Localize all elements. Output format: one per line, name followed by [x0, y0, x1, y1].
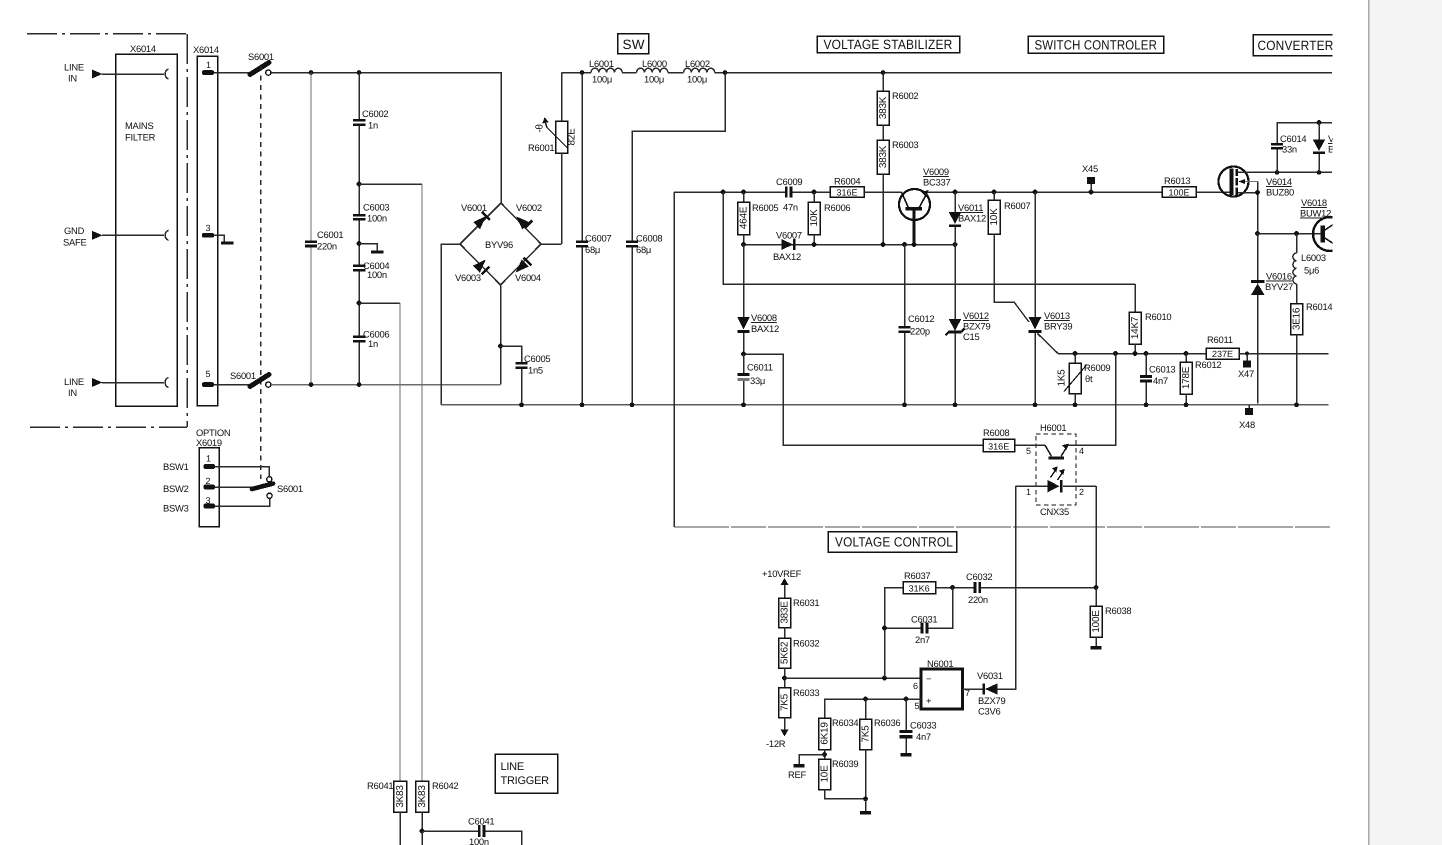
node source: [1255, 190, 1260, 195]
svg-text:R6038: R6038: [1105, 605, 1131, 616]
svg-text:MAINS: MAINS: [125, 120, 153, 131]
SWITCH CONTROLER title box: [1028, 36, 1164, 53]
connector X6014 body: [197, 56, 218, 406]
node V6013 top: [1033, 190, 1038, 195]
wire R6011 right to page edge: [1239, 353, 1329, 355]
node L6003 tap: [1294, 231, 1299, 236]
inductor L6002: [684, 58, 715, 85]
svg-text:R6013: R6013: [1164, 175, 1190, 186]
svg-text:−: −: [926, 673, 932, 684]
node C6012 rail: [902, 402, 907, 407]
svg-text:464E: 464E: [739, 206, 750, 229]
connector X6019 body: [199, 448, 219, 527]
svg-text:BUZ80: BUZ80: [1266, 187, 1294, 198]
svg-text:L6001: L6001: [589, 58, 614, 69]
svg-text:R6042: R6042: [432, 780, 458, 791]
svg-text:82E: 82E: [567, 128, 578, 146]
svg-text:31K6: 31K6: [909, 583, 930, 593]
svg-text:33n: 33n: [1282, 144, 1297, 155]
node R6037/C6031/C6032: [950, 585, 955, 590]
svg-text:6: 6: [913, 681, 918, 691]
svg-text:SW: SW: [623, 37, 645, 52]
svg-text:FILTER: FILTER: [125, 132, 156, 143]
svg-text:C6012: C6012: [908, 313, 934, 324]
svg-text:V6011: V6011: [958, 202, 983, 213]
svg-text:5: 5: [915, 701, 920, 711]
capacitor C6033: [900, 699, 937, 757]
svg-text:100E: 100E: [1168, 187, 1189, 197]
svg-text:14K7: 14K7: [1130, 316, 1141, 339]
svg-text:R6006: R6006: [824, 202, 850, 213]
node V6013 rail: [1033, 402, 1038, 407]
capacitor C6006: [353, 336, 366, 339]
resistor R6012: [1180, 354, 1221, 405]
op-amp N6001: [913, 658, 970, 711]
node V6011 top: [953, 190, 958, 195]
svg-text:BYV96: BYV96: [485, 239, 513, 250]
switch S6001 top lever: [250, 63, 269, 75]
diode V6015 (clipped labels): [1313, 123, 1349, 173]
switch S6001 option upper contact: [267, 477, 272, 482]
input arrow LINE IN bottom: [92, 378, 103, 387]
terminal X47: [1238, 352, 1254, 380]
svg-text:1n5: 1n5: [528, 365, 543, 376]
node: [741, 242, 746, 247]
switch S6001 bottom contact circle: [266, 382, 271, 387]
svg-text:4: 4: [1079, 446, 1084, 456]
svg-text:S6001: S6001: [277, 483, 303, 494]
node X45: [1089, 190, 1094, 195]
svg-text:1: 1: [206, 454, 211, 464]
svg-text:S6001: S6001: [230, 370, 256, 381]
resistor R6031: [779, 597, 820, 628]
resistor R6032: [779, 628, 820, 688]
wire gate: [1196, 191, 1231, 193]
contact (female) GND SAFE: [165, 230, 168, 240]
svg-text:178E: 178E: [1181, 366, 1192, 389]
svg-text:BSW2: BSW2: [163, 483, 189, 494]
svg-text:R6011: R6011: [1207, 334, 1233, 345]
svg-text:1n: 1n: [368, 338, 378, 349]
svg-text:5K62: 5K62: [780, 641, 791, 664]
svg-text:H6001: H6001: [1040, 422, 1066, 433]
resistor R6033: [779, 687, 820, 730]
svg-text:V6016: V6016: [1266, 271, 1292, 282]
svg-text:BAX12: BAX12: [751, 323, 779, 334]
svg-text:VOLTAGE CONTROL: VOLTAGE CONTROL: [835, 535, 953, 550]
svg-text:C6009: C6009: [776, 176, 802, 187]
svg-text:6K19: 6K19: [820, 722, 831, 745]
node C6002 top: [357, 70, 362, 75]
node R6036/R6039 ground: [863, 796, 868, 801]
node: [812, 242, 817, 247]
svg-text:R6009: R6009: [1084, 362, 1110, 373]
resistor R6001 (NTC): [528, 73, 578, 244]
svg-text:1K5: 1K5: [1057, 369, 1068, 387]
wire DC rail: [562, 72, 592, 74]
svg-text:C6007: C6007: [585, 233, 611, 244]
svg-text:1n: 1n: [368, 120, 378, 131]
svg-text:C15: C15: [963, 331, 979, 342]
svg-text:7K5: 7K5: [861, 725, 872, 743]
svg-text:IN: IN: [68, 73, 77, 84]
capacitor C6013: [1140, 354, 1175, 405]
svg-text:220p: 220p: [910, 326, 930, 337]
wire bridge left vertex to ground rail: [441, 244, 460, 405]
svg-text:C6001: C6001: [317, 229, 343, 240]
capacitor C6009: [776, 176, 802, 213]
svg-text:BSW1: BSW1: [163, 461, 189, 472]
svg-text:C6002: C6002: [362, 108, 388, 119]
svg-text:V6031: V6031: [977, 670, 1003, 681]
diode V6003: [455, 260, 489, 284]
svg-text:47n: 47n: [783, 202, 798, 213]
svg-text:C6011: C6011: [747, 362, 773, 373]
node V6015 top: [1317, 120, 1322, 125]
node base wire: [1255, 231, 1260, 236]
svg-text:BUW12: BUW12: [1300, 208, 1331, 219]
diode V6002: [516, 202, 542, 230]
node V6012 rail: [953, 402, 958, 407]
svg-text:GND: GND: [64, 225, 85, 236]
svg-text:100n: 100n: [367, 269, 387, 280]
node R6034/R6039/REF: [822, 752, 827, 757]
svg-text:100E: 100E: [1091, 610, 1102, 633]
optocoupler H6001 dashed box: [1036, 434, 1076, 505]
capacitor C6002: [358, 73, 360, 120]
node R6005 top: [741, 190, 746, 195]
svg-text:4n7: 4n7: [1153, 375, 1168, 386]
svg-text:V6002: V6002: [516, 202, 542, 213]
svg-text:C6041: C6041: [468, 816, 494, 827]
resistor R6010: [1129, 284, 1171, 354]
svg-text:SWITCH CONTROLER: SWITCH CONTROLER: [1035, 38, 1158, 53]
node C6011 rail: [741, 402, 746, 407]
wire bottom switch rail: [271, 384, 501, 386]
svg-text:TRIGGER: TRIGGER: [501, 775, 550, 787]
svg-text:33μ: 33μ: [750, 375, 765, 386]
svg-text:L6003: L6003: [1301, 252, 1326, 263]
wire H6001 pin4 riser: [1068, 354, 1116, 446]
resistor R6034: [819, 717, 859, 759]
svg-text:V6003: V6003: [455, 272, 481, 283]
wire R6042 drop: [421, 184, 423, 781]
input arrow GND SAFE: [92, 231, 103, 240]
svg-text:R6004: R6004: [834, 176, 860, 187]
node R6042 / C6041: [420, 829, 425, 834]
wire LINE IN bottom: [102, 382, 164, 384]
node C6001 bottom: [309, 382, 314, 387]
svg-text:R6032: R6032: [793, 638, 819, 649]
capacitor C6008 with loop from rail: [626, 73, 725, 405]
capacitor C6005: [501, 346, 522, 362]
resistor R6003: [877, 125, 918, 245]
svg-text:100μ: 100μ: [592, 74, 612, 85]
node C6008/rail: [630, 402, 635, 407]
wire AC top rail from switch: [271, 73, 501, 203]
contact (female) LINE IN top: [165, 69, 168, 79]
wire to V6018 base: [1258, 233, 1322, 235]
resistor R6006: [808, 192, 850, 245]
svg-text:5μ6: 5μ6: [1304, 265, 1319, 276]
svg-text:R6010: R6010: [1145, 311, 1171, 322]
svg-text:V6004: V6004: [515, 272, 541, 283]
wire pin2 riser down to R6038: [1095, 486, 1097, 587]
node C6013 top: [1144, 351, 1149, 356]
resistor R6036: [860, 699, 901, 799]
wire R6037 out: [936, 587, 975, 589]
diode V6011: [949, 192, 986, 245]
pin 3 contact bar: [202, 233, 214, 238]
svg-text:V6018: V6018: [1301, 197, 1327, 208]
X6019 pin 3 bar: [204, 504, 216, 509]
svg-text:N6001: N6001: [927, 658, 953, 669]
wire R6041 drop: [399, 303, 401, 781]
node R6032/R6033/pin6: [782, 676, 787, 681]
contact (female) LINE IN bottom: [165, 378, 168, 388]
diode V6007: [773, 230, 802, 263]
svg-text:3K83: 3K83: [417, 785, 428, 808]
pin 3 chassis stub: [214, 235, 224, 242]
wire: [668, 72, 684, 74]
thyristor V6013 BRY39: [1029, 192, 1073, 405]
svg-text:R6001: R6001: [528, 142, 554, 153]
wire pin7: [963, 688, 984, 690]
sense loop wire to control section: [673, 192, 675, 527]
node loop tap: [721, 190, 726, 195]
resistor R6002: [877, 73, 918, 125]
node: [881, 242, 886, 247]
node C6008 loop tap: [723, 70, 728, 75]
svg-text:4n7: 4n7: [916, 731, 931, 742]
svg-text:V6013: V6013: [1044, 310, 1070, 321]
H6001 phototransistor: [1045, 444, 1069, 460]
resistor R6013: [1162, 175, 1196, 197]
svg-text:-12R: -12R: [766, 738, 786, 749]
bridge rectifier BYV96 diamond: [460, 203, 541, 285]
wire base net left segment: [674, 191, 786, 193]
svg-text:R6031: R6031: [793, 597, 819, 608]
svg-text:10K: 10K: [989, 208, 1000, 226]
node R6012 top: [1184, 351, 1189, 356]
svg-text:C6003: C6003: [363, 202, 389, 213]
dash-dot mains boundary bottom edge: [30, 426, 187, 428]
svg-text:1: 1: [1026, 487, 1031, 497]
resistor R6037: [903, 570, 936, 594]
svg-text:V6008: V6008: [751, 312, 777, 323]
LINE TRIGGER box: [495, 754, 558, 793]
svg-text:C3V6: C3V6: [978, 706, 1000, 717]
svg-text:V6001: V6001: [461, 202, 487, 213]
svg-text:R6033: R6033: [793, 687, 819, 698]
svg-text:C6008: C6008: [636, 233, 662, 244]
wire source net: [1257, 182, 1259, 234]
node feedback: [882, 676, 887, 681]
svg-text:R6007: R6007: [1004, 200, 1030, 211]
diode V6004: [515, 258, 541, 283]
wire pin1 to switch: [214, 72, 251, 74]
svg-text:3K83: 3K83: [395, 785, 406, 808]
terminal X45: [1082, 163, 1098, 192]
svg-text:100μ: 100μ: [687, 74, 707, 85]
diode V6001: [461, 202, 490, 229]
svg-text:V6014: V6014: [1266, 176, 1292, 187]
svg-text:10E: 10E: [820, 765, 831, 783]
svg-text:X47: X47: [1238, 368, 1254, 379]
-12R terminal: [766, 730, 789, 750]
switch linkage dashed line: [260, 66, 262, 479]
MOSFET V6014 BUZ80: [1219, 167, 1294, 198]
svg-text:383E: 383E: [780, 601, 791, 624]
svg-text:R6005: R6005: [752, 202, 778, 213]
resistor R6007: [988, 192, 1030, 322]
zener V6031: [977, 670, 1005, 717]
resistor R6011: [1206, 334, 1239, 359]
page edge gray panel: [1369, 0, 1442, 845]
CONVERTER title box (clipped by page edge): [1253, 35, 1339, 56]
svg-text:3: 3: [206, 223, 211, 233]
svg-text:316E: 316E: [836, 188, 857, 198]
terminal X48: [1239, 405, 1255, 430]
node R6007 top: [992, 190, 997, 195]
svg-text:220n: 220n: [317, 241, 337, 252]
svg-text:BZX79: BZX79: [978, 695, 1005, 706]
X6019 pin 2 bar: [204, 485, 216, 490]
svg-text:X6019: X6019: [196, 437, 222, 448]
node C6013 rail: [1144, 402, 1149, 407]
svg-text:R6039: R6039: [832, 758, 858, 769]
switch S6001 top contact circle: [266, 70, 271, 75]
wire pin6: [785, 677, 922, 679]
resistor R6041: [394, 781, 407, 812]
svg-text:10K: 10K: [809, 209, 820, 227]
node C6004/C6006 with branch to R6041: [357, 301, 362, 306]
svg-text:2n7: 2n7: [915, 634, 930, 645]
svg-text:R6002: R6002: [892, 90, 918, 101]
wire BSW1 to switch contact: [215, 467, 269, 478]
node R6010 bottom: [1133, 351, 1138, 356]
node C6007 top: [580, 70, 585, 75]
svg-text:BAX12: BAX12: [958, 213, 986, 224]
capacitor C6032: [966, 571, 1096, 605]
ground return rail: [441, 404, 1329, 406]
wire main DC rail to page edge: [715, 72, 1332, 74]
wire H6001 pin1: [1016, 485, 1048, 487]
wire H6001 pin2: [1063, 485, 1096, 487]
resistor R6039: [819, 758, 866, 799]
svg-text:C6014: C6014: [1280, 133, 1306, 144]
svg-text:V6009: V6009: [923, 166, 949, 177]
svg-text:L6002: L6002: [685, 58, 710, 69]
svg-text:68μ: 68μ: [585, 244, 600, 255]
svg-text:5: 5: [206, 369, 211, 379]
node V6008/C6011/R6008: [741, 352, 746, 357]
thermistor R6009: [1057, 354, 1111, 405]
svg-text:V6012: V6012: [963, 310, 989, 321]
svg-text:R6041: R6041: [367, 780, 393, 791]
wire pin1 riser down to V6031: [998, 486, 1016, 689]
SW box: [618, 34, 649, 54]
switch S6001 option lower contact: [267, 493, 272, 498]
svg-text:X6014: X6014: [193, 44, 219, 55]
transistor V6009 BC337: [899, 166, 950, 245]
svg-text:C6013: C6013: [1149, 364, 1175, 375]
svg-text:LINE: LINE: [64, 376, 84, 387]
svg-text:X48: X48: [1239, 419, 1255, 430]
node R6012 rail: [1184, 402, 1189, 407]
svg-text:5: 5: [1026, 446, 1031, 456]
svg-text:LINE: LINE: [64, 62, 84, 73]
inductor L6000: [637, 58, 668, 85]
node R6014 rail: [1294, 402, 1299, 407]
svg-text:SAFE: SAFE: [63, 237, 87, 248]
wire X47 net: [1058, 353, 1206, 355]
svg-text:BAX12: BAX12: [773, 251, 801, 262]
node: [902, 242, 907, 247]
wire BSW3 to switch contact: [215, 498, 270, 506]
wire bridge bottom vertex to line switch: [500, 285, 502, 385]
switch S6001 bottom lever: [250, 375, 269, 387]
wire emitter net y244: [744, 244, 956, 246]
wire pin5 to switch: [214, 384, 251, 386]
inductor L6003: [1293, 234, 1326, 284]
node C6007/rail: [580, 402, 585, 407]
node C6001 top: [309, 70, 314, 75]
svg-text:C6033: C6033: [910, 720, 936, 731]
svg-text:100n: 100n: [367, 213, 387, 224]
svg-text:LINE: LINE: [501, 761, 524, 773]
wire GND SAFE: [102, 234, 164, 236]
VOLTAGE CONTROL title box: [828, 532, 957, 553]
H6001 LED: [1048, 466, 1065, 492]
node C6014 bottom: [1275, 170, 1280, 175]
+10VREF terminal: [762, 568, 802, 598]
node C6033 top: [904, 697, 909, 702]
resistor R6042: [416, 781, 429, 812]
node C6005/rail: [519, 402, 524, 407]
diode V6016 BYV27: [1251, 234, 1293, 404]
node H6001 riser: [1113, 351, 1118, 356]
svg-text:383K: 383K: [878, 96, 889, 119]
svg-text:REF: REF: [788, 769, 807, 780]
dash-dot mains boundary right edge: [186, 34, 188, 427]
wire: [792, 191, 830, 193]
svg-text:BSW3: BSW3: [163, 503, 189, 514]
capacitor C6004: [353, 265, 366, 268]
svg-text:R6036: R6036: [874, 717, 900, 728]
capacitor C6003: [353, 214, 366, 217]
svg-text:R6003: R6003: [892, 139, 918, 150]
switch S6001 option lever: [252, 484, 273, 489]
resistor R6014: [1291, 284, 1333, 405]
mains filter box: [116, 54, 178, 406]
capacitor C6041: [422, 830, 478, 832]
input arrow LINE IN top: [92, 70, 103, 79]
wire R6004 to V6009 base: [864, 191, 902, 193]
wire BSW2 to lever: [215, 486, 252, 488]
svg-text:X45: X45: [1082, 163, 1098, 174]
node R6009 top: [1073, 351, 1078, 356]
capacitor C6012: [899, 245, 935, 405]
svg-text:X6014: X6014: [130, 43, 156, 54]
pin 1 contact bar: [202, 70, 214, 75]
capacitor C6031: [882, 588, 952, 646]
svg-text:-θ: -θ: [535, 124, 546, 133]
node C6006 bottom: [357, 382, 362, 387]
node R6002 top: [881, 70, 886, 75]
svg-text:+10VREF: +10VREF: [762, 568, 802, 579]
svg-text:R6034: R6034: [832, 717, 858, 728]
